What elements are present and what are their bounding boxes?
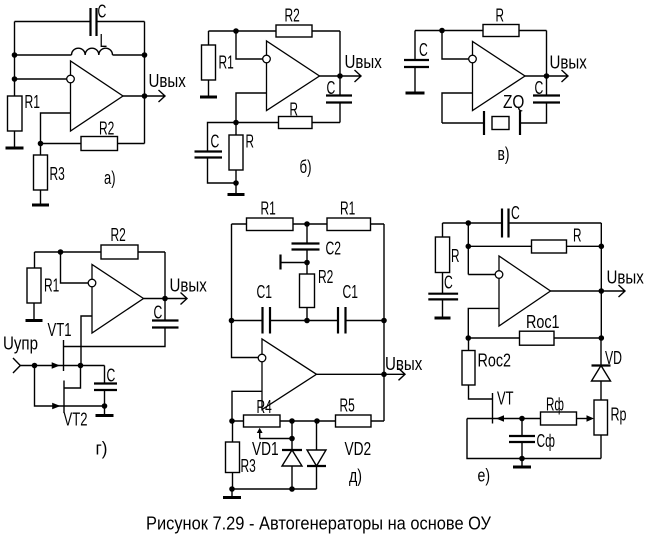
ground (435, 300, 451, 318)
wire (81, 316, 92, 366)
svg-text:г): г) (96, 438, 108, 459)
node junction (142, 93, 148, 99)
capacitor C (326, 96, 352, 103)
resistor R4 potentiometer (244, 415, 293, 439)
capacitor C (94, 384, 117, 391)
wire (339, 103, 341, 123)
svg-text:C: C (444, 272, 453, 293)
transistor VT (493, 393, 505, 424)
wire (118, 143, 145, 145)
node junction (599, 288, 605, 294)
svg-text:Roc2: Roc2 (478, 350, 512, 371)
wire (236, 31, 263, 59)
wire (510, 222, 602, 224)
ground (513, 459, 531, 468)
svg-text:R: R (246, 131, 255, 152)
resistor R5 (336, 415, 372, 427)
svg-text:а): а) (104, 167, 116, 188)
svg-text:C: C (211, 131, 220, 152)
resistor R (229, 123, 243, 184)
input arrow Uupr (13, 358, 20, 373)
node junction (304, 260, 310, 266)
svg-text:ZQ: ZQ (503, 91, 524, 112)
svg-text:VD2: VD2 (345, 438, 372, 459)
wire (346, 320, 384, 322)
output arrow (601, 285, 625, 297)
wire (442, 93, 473, 123)
wire (113, 54, 145, 56)
node junction (229, 486, 235, 492)
wire (208, 123, 237, 152)
svg-text:C1: C1 (343, 281, 359, 302)
node junction (162, 296, 168, 302)
wire (468, 274, 495, 276)
node junction (102, 403, 108, 409)
wire (232, 421, 234, 442)
wire (208, 158, 237, 183)
resistor R1 (27, 268, 41, 303)
wire (442, 223, 444, 237)
svg-text:Rф: Rф (546, 394, 564, 415)
svg-text:R4: R4 (257, 396, 272, 417)
wire (232, 391, 262, 421)
node junction (78, 363, 84, 369)
wire (271, 320, 338, 322)
node junction (381, 318, 387, 324)
wire (467, 418, 541, 420)
svg-text:R1: R1 (219, 52, 234, 73)
resistor R1 (247, 218, 294, 231)
node junction (466, 220, 472, 226)
output arrow (384, 368, 405, 380)
svg-text:R5: R5 (340, 395, 355, 416)
svg-text:R: R (290, 98, 299, 119)
wire (232, 321, 259, 358)
node junction (12, 52, 18, 58)
wire (600, 435, 602, 459)
svg-text:R: R (573, 225, 582, 246)
op-amp inverting input circle (263, 55, 271, 63)
node junction (233, 28, 239, 34)
svg-text:Рисунок 7.29 - Автогенераторы: Рисунок 7.29 - Автогенераторы на основе … (146, 513, 491, 534)
node junction (544, 73, 550, 79)
op-amp b (267, 41, 320, 111)
capacitor C (152, 321, 179, 328)
node junction (233, 180, 239, 186)
wire (40, 144, 42, 156)
wire (144, 298, 166, 300)
resistor R2 (276, 25, 312, 37)
wire (35, 366, 65, 407)
resistor R (279, 117, 313, 129)
wire (231, 224, 233, 321)
svg-text:C: C (327, 77, 336, 98)
node junction (38, 141, 44, 147)
wire (209, 30, 341, 32)
wire (339, 31, 341, 95)
op-amp d (262, 339, 317, 410)
wire (442, 31, 469, 60)
svg-text:R2: R2 (111, 224, 126, 245)
svg-text:Rp: Rp (611, 404, 627, 425)
wire (525, 75, 547, 77)
svg-text:VT2: VT2 (64, 409, 88, 430)
node junction (289, 436, 295, 442)
capacitor C (91, 8, 97, 36)
node junction (439, 28, 445, 34)
wire (442, 122, 484, 124)
svg-text:е): е) (478, 465, 491, 486)
svg-text:д): д) (349, 465, 362, 486)
wire (208, 31, 210, 45)
op-amp inverting input circle (258, 354, 266, 362)
capacitor C (533, 96, 560, 103)
resistor R3 (226, 442, 240, 473)
wire (383, 224, 385, 421)
inductor L (72, 48, 113, 55)
svg-text:Uвых: Uвых (607, 267, 645, 288)
wire (414, 31, 416, 60)
output arrow (547, 70, 569, 82)
node junction (599, 244, 605, 250)
wire (306, 250, 308, 263)
node junction (289, 418, 295, 424)
svg-text:Uвых: Uвых (550, 52, 588, 73)
wire (232, 420, 384, 422)
resistor R (483, 25, 519, 37)
svg-text:C: C (511, 202, 520, 223)
capacitor Cf (509, 419, 535, 459)
resistor Roc2 (462, 351, 475, 386)
wiper arrow into Rp (577, 415, 595, 422)
svg-text:VT: VT (497, 387, 514, 408)
svg-text:C: C (419, 39, 428, 60)
wire (15, 21, 91, 23)
node junction (304, 221, 310, 227)
svg-text:C: C (154, 302, 163, 323)
diode VD (592, 338, 611, 400)
node junction (466, 335, 472, 341)
svg-text:Uупр: Uупр (3, 333, 38, 354)
op-amp inverting input circle (88, 279, 96, 287)
svg-text:R2: R2 (318, 266, 333, 287)
svg-text:R1: R1 (25, 91, 41, 112)
wire (306, 263, 308, 275)
node junction (337, 73, 343, 79)
node junction (289, 486, 295, 492)
node junction (142, 52, 148, 58)
capacitor C (428, 294, 458, 300)
resistor Roc1 (520, 331, 555, 345)
svg-text:R1: R1 (261, 198, 276, 219)
svg-text:R3: R3 (241, 455, 256, 476)
transistor VT2 (52, 381, 64, 414)
wire (14, 22, 16, 97)
node junction (229, 318, 235, 324)
wire (15, 54, 72, 56)
crystal ZQ (484, 111, 520, 135)
transistor VT1 (52, 340, 64, 371)
node junction (381, 372, 387, 378)
wire (468, 245, 601, 247)
wire (306, 224, 308, 243)
op-amp inverting input circle (495, 271, 503, 279)
op-amp e (499, 256, 551, 326)
resistor Rf (541, 412, 577, 425)
resistor R1 (202, 45, 216, 80)
output arrow (340, 70, 361, 82)
wire (520, 103, 547, 123)
wire (469, 385, 493, 399)
diode VD1 (282, 421, 302, 489)
svg-text:C: C (535, 77, 544, 98)
svg-text:C2: C2 (326, 238, 342, 259)
resistor R2 (81, 137, 118, 151)
capacitor C (195, 152, 223, 158)
output arrow (165, 293, 187, 305)
svg-text:VD: VD (605, 347, 622, 368)
node junction (229, 418, 235, 424)
wire (232, 223, 385, 225)
resistor R2 (300, 274, 315, 308)
ground (96, 406, 114, 416)
wire (442, 273, 444, 294)
ground (26, 303, 43, 321)
node junction (314, 418, 320, 424)
op-amp inverting input circle (469, 55, 477, 63)
wire (600, 223, 602, 338)
svg-text:Uвых: Uвых (385, 353, 423, 374)
wire (20, 365, 104, 367)
svg-text:в): в) (498, 143, 510, 164)
ground (6, 131, 24, 148)
svg-text:б): б) (300, 156, 312, 177)
svg-text:Uвых: Uвых (345, 51, 383, 72)
svg-text:VD1: VD1 (252, 438, 279, 459)
wire (232, 320, 263, 322)
ground (223, 489, 241, 498)
ground (406, 68, 425, 94)
node junction (466, 244, 472, 250)
wire (144, 22, 146, 144)
node junction (58, 249, 64, 255)
wire (236, 93, 267, 123)
wire (551, 290, 602, 292)
svg-text:R2: R2 (285, 5, 300, 26)
diode VD2 (307, 421, 326, 489)
output arrow (145, 90, 166, 102)
chassis terminal (281, 255, 308, 270)
capacitor C1 (338, 307, 346, 334)
wire (232, 473, 234, 490)
node junction (12, 76, 18, 82)
capacitor C1 (263, 307, 271, 334)
node junction (599, 335, 605, 341)
svg-text:R2: R2 (99, 118, 114, 139)
svg-text:R1: R1 (340, 198, 355, 219)
svg-text:R: R (496, 5, 505, 26)
wire (546, 31, 548, 96)
resistor Rp (594, 400, 608, 435)
resistor R1 (327, 218, 371, 231)
resistor R3 (34, 155, 48, 190)
wire (164, 252, 166, 320)
wire (467, 223, 469, 275)
capacitor C (502, 209, 509, 238)
resistor R (532, 240, 567, 253)
svg-text:C: C (98, 1, 107, 22)
node junction (233, 120, 239, 126)
wire (34, 252, 36, 268)
wire (320, 75, 341, 77)
wire (15, 78, 67, 80)
wire (61, 252, 89, 283)
wire (104, 366, 106, 384)
svg-text:C: C (107, 365, 116, 386)
svg-text:Roc1: Roc1 (526, 311, 560, 332)
resistor R1 (8, 96, 23, 131)
node junction (32, 363, 38, 369)
resistor R (435, 237, 449, 273)
wire (317, 373, 385, 375)
node junction (519, 456, 525, 462)
svg-text:VT1: VT1 (48, 319, 72, 340)
capacitor C (404, 60, 429, 67)
wire (468, 308, 499, 338)
op-amp a (71, 61, 124, 131)
svg-text:C1: C1 (257, 281, 273, 302)
capacitor C2 (292, 244, 320, 250)
op-amp v (473, 42, 526, 111)
svg-text:R: R (451, 245, 460, 266)
wire (35, 251, 166, 253)
svg-text:Сф: Сф (537, 430, 556, 451)
wire (64, 328, 166, 347)
wire (41, 143, 82, 145)
svg-text:R1: R1 (44, 275, 59, 296)
op-amp g (92, 265, 144, 334)
wire (64, 405, 105, 407)
svg-text:R3: R3 (50, 163, 65, 184)
wire (306, 308, 308, 321)
wire (468, 338, 470, 351)
resistor R2 (101, 245, 138, 259)
svg-text:Uвых: Uвых (170, 275, 208, 296)
wire (236, 122, 340, 124)
wire (104, 391, 106, 407)
node junction (304, 318, 310, 324)
wire (467, 419, 601, 459)
wire (97, 21, 145, 23)
wire (232, 488, 317, 490)
op-amp inverting input circle (67, 75, 75, 83)
wire (468, 337, 601, 339)
ground (228, 183, 245, 195)
ground (32, 190, 49, 205)
node junction (519, 416, 525, 422)
svg-text:Uвых: Uвых (149, 70, 187, 91)
wire (64, 366, 81, 389)
wire (123, 95, 145, 97)
wire (443, 222, 502, 224)
wire (41, 113, 71, 144)
ground (200, 80, 217, 97)
wire (415, 30, 547, 32)
